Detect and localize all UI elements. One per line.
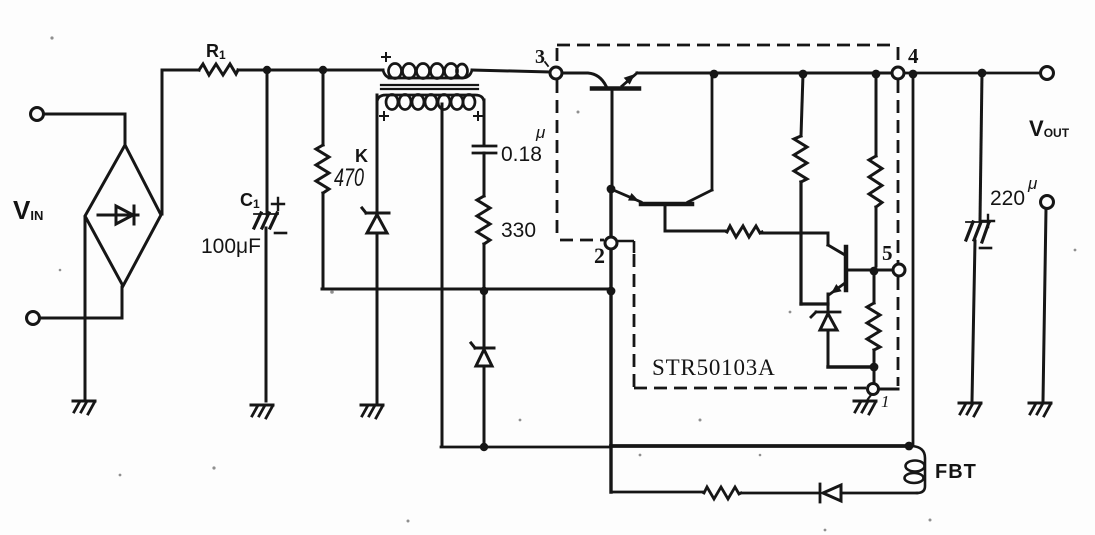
diode DK line [376, 95, 379, 402]
resistor R2 [794, 74, 828, 304]
FBT coil [905, 446, 926, 493]
node junction [480, 287, 488, 295]
resistor R1 [199, 64, 238, 75]
Q2 base wire [665, 206, 727, 231]
resistor 470 [316, 70, 329, 288]
node junction Q1 base / Q2 emitter [607, 185, 616, 194]
svg-text:0.18: 0.18 [501, 143, 542, 166]
svg-text:330: 330 [501, 219, 536, 242]
node junction [319, 66, 327, 74]
wire center tap [441, 104, 444, 446]
node junction [607, 287, 616, 296]
STR50103A dashed package outline [557, 45, 898, 388]
diode D2 [471, 343, 494, 366]
resistor feedback [704, 487, 741, 499]
node junction [909, 70, 918, 79]
svg-text:C1: C1 [240, 190, 260, 211]
plus mark secondary left [380, 112, 388, 120]
resistor R3 [867, 276, 880, 383]
bridge diode symbol [98, 206, 138, 224]
plus mark 220u [982, 215, 994, 227]
rail node3 to Q1 [563, 73, 606, 86]
resistor 330 [477, 196, 490, 290]
ground [73, 400, 95, 403]
diode DK [362, 208, 389, 233]
svg-text:K: K [355, 146, 368, 166]
plus mark primary [382, 53, 390, 61]
feedback wire bottom [611, 492, 818, 493]
node 5 [893, 264, 905, 276]
ground [251, 404, 273, 407]
wire [44, 114, 125, 146]
node 3 [550, 67, 562, 79]
svg-text:μ: μ [535, 123, 546, 142]
node junction Q3 base [870, 267, 879, 276]
svg-text:STR50103A: STR50103A [652, 355, 776, 380]
wire feedback to FBT [841, 492, 917, 495]
plus mark secondary right [474, 112, 482, 120]
node 4 [892, 67, 904, 79]
svg-text:VOUT: VOUT [1029, 116, 1070, 141]
svg-text:220: 220 [990, 187, 1025, 210]
label 3 tick [545, 62, 548, 66]
transistor Q1 [592, 73, 639, 188]
node junction [799, 70, 808, 79]
transformer T1 primary [383, 64, 472, 79]
wire FBT vertical [912, 74, 915, 444]
svg-text:100μF: 100μF [201, 235, 261, 258]
minus mark C1 [275, 232, 286, 235]
transistor Q2 [611, 74, 712, 204]
node junction [872, 70, 881, 79]
node 2 [605, 237, 617, 249]
wire [40, 287, 122, 318]
minus mark 220u [980, 247, 991, 250]
node junction [710, 70, 719, 79]
svg-text:4: 4 [908, 44, 919, 68]
wire bottom left horizontal [322, 288, 608, 291]
pin1 tick [880, 388, 898, 391]
bridge rectifier BR1 [85, 145, 161, 286]
svg-text:VIN: VIN [13, 195, 43, 225]
wire to Q3 [762, 233, 845, 255]
svg-text:FBT: FBT [935, 461, 977, 483]
wire rail left [472, 70, 549, 72]
pin 1 [868, 384, 879, 395]
transistor Q3 [830, 247, 893, 294]
svg-text:5: 5 [882, 241, 893, 265]
svg-text:2: 2 [594, 243, 605, 268]
node junction [870, 363, 879, 372]
ground [361, 404, 383, 407]
ground 220u [959, 402, 981, 405]
resistor R internal [727, 226, 762, 237]
capacitor 220u [966, 73, 990, 401]
rail right of node4 [905, 72, 1040, 75]
diode feedback [820, 484, 841, 502]
wire Vout bottom [1043, 209, 1046, 401]
svg-text:3: 3 [535, 46, 545, 68]
terminal Vout bottom [1041, 196, 1054, 209]
transformer T1 secondary [377, 95, 484, 110]
capacitor 0.18u [473, 100, 496, 196]
resistor chain x875 top [869, 74, 882, 266]
dashed notch solid bracket [618, 241, 634, 253]
terminal input top [31, 108, 44, 121]
zener ZD [811, 294, 874, 367]
node junction 220u [978, 69, 987, 78]
rail Q1 to node4 [637, 72, 892, 75]
node junction [263, 66, 271, 74]
wire [162, 69, 383, 72]
node junction FBT [905, 442, 914, 451]
capacitor C1 [254, 70, 278, 401]
transformer core [381, 85, 478, 89]
wire node2 [609, 189, 612, 492]
node junction [480, 443, 488, 451]
diode D2 line [483, 291, 486, 446]
plus mark C1 [272, 198, 284, 210]
svg-text:1: 1 [881, 392, 890, 411]
svg-text:R1: R1 [206, 41, 226, 62]
terminal input bottom [27, 312, 40, 325]
terminal Vout top [1041, 67, 1054, 80]
svg-text:μ: μ [1027, 174, 1038, 193]
ground Vout [1029, 402, 1051, 405]
wire [161, 70, 164, 214]
wire horizontal mid bottom [441, 446, 611, 449]
wire [84, 217, 87, 399]
svg-text:470: 470 [334, 164, 364, 192]
ground pin1 [854, 395, 876, 414]
